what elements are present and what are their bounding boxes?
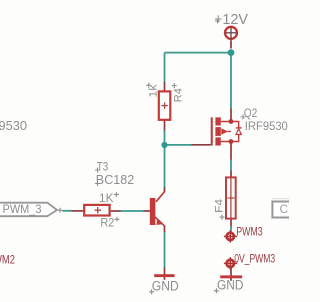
svg-text:BC182: BC182 [96,172,135,187]
svg-text:C: C [280,202,289,216]
svg-text:+12V: +12V [214,12,248,28]
svg-text:F4: F4 [213,199,225,213]
svg-text:1K: 1K [99,193,114,205]
svg-text:GND: GND [217,277,244,292]
svg-text:GND: GND [152,279,179,294]
svg-text:R2: R2 [100,218,114,230]
svg-text:IRF9530: IRF9530 [245,121,288,133]
svg-text:PWM3: PWM3 [236,227,263,239]
svg-text:WM2: WM2 [0,255,15,267]
svg-text:9530: 9530 [0,119,27,133]
svg-text:Q2: Q2 [244,106,258,120]
svg-text:1k: 1k [148,84,160,98]
svg-text:R4: R4 [172,88,184,102]
svg-text:0V_PWM3: 0V_PWM3 [234,253,275,265]
svg-text:PWM_3: PWM_3 [3,202,42,216]
